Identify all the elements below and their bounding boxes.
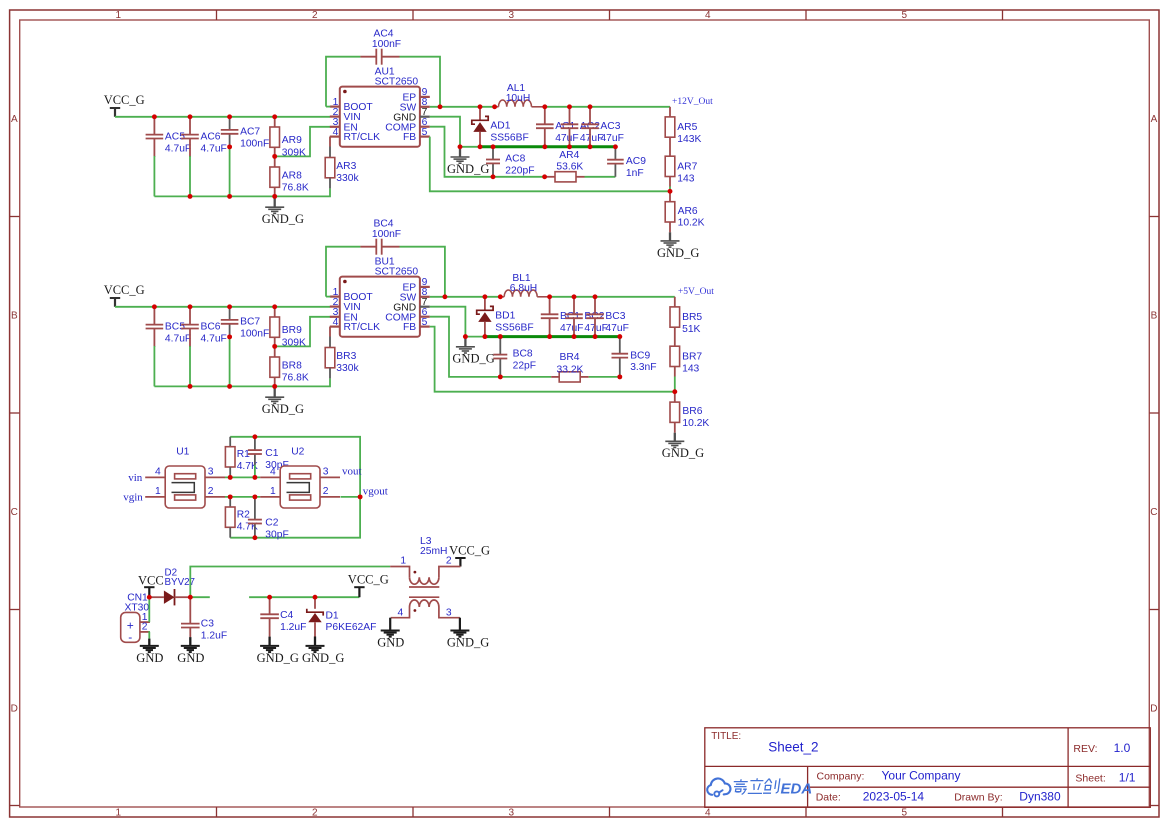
svg-text:vout: vout	[342, 466, 362, 478]
svg-text:3.3nF: 3.3nF	[630, 362, 656, 373]
svg-text:Your Company: Your Company	[882, 768, 961, 782]
svg-text:47uF: 47uF	[560, 323, 583, 334]
svg-text:GND_G: GND_G	[447, 635, 489, 649]
svg-text:D: D	[11, 703, 18, 714]
svg-text:BC7: BC7	[240, 317, 260, 328]
svg-text:2: 2	[446, 556, 452, 567]
svg-text:+12V_Out: +12V_Out	[672, 97, 713, 107]
svg-text:AC6: AC6	[201, 131, 221, 142]
svg-text:47uF: 47uF	[555, 133, 578, 144]
svg-text:100nF: 100nF	[240, 329, 269, 340]
svg-text:220pF: 220pF	[505, 165, 534, 176]
svg-text:3: 3	[508, 10, 514, 21]
svg-text:B: B	[1151, 310, 1158, 321]
svg-text:10.2K: 10.2K	[682, 418, 709, 429]
svg-text:4: 4	[155, 467, 161, 478]
svg-text:EDA: EDA	[781, 781, 813, 798]
svg-text:-: -	[128, 630, 132, 644]
svg-text:2: 2	[312, 10, 318, 21]
svg-text:BC1: BC1	[560, 311, 580, 322]
svg-text:GND: GND	[177, 651, 204, 665]
svg-text:GND_G: GND_G	[257, 651, 299, 665]
svg-text:100nF: 100nF	[372, 39, 401, 50]
svg-text:4: 4	[705, 807, 711, 818]
svg-text:GND_G: GND_G	[302, 651, 344, 665]
svg-text:A: A	[1151, 114, 1158, 125]
svg-text:AR9: AR9	[282, 135, 302, 146]
svg-text:GND_G: GND_G	[452, 352, 494, 366]
svg-text:53.6K: 53.6K	[556, 161, 583, 172]
svg-text:GND_G: GND_G	[662, 446, 704, 460]
svg-text:5: 5	[422, 127, 428, 138]
svg-text:4.7uF: 4.7uF	[165, 143, 191, 154]
svg-text:BR5: BR5	[682, 312, 702, 323]
svg-text:1.2uF: 1.2uF	[201, 630, 227, 641]
svg-text:100nF: 100nF	[372, 229, 401, 240]
svg-text:47uF: 47uF	[600, 133, 623, 144]
svg-text:VCC_G: VCC_G	[449, 543, 490, 557]
svg-text:FB: FB	[403, 322, 416, 333]
svg-text:6.8uH: 6.8uH	[510, 283, 537, 294]
svg-text:2: 2	[312, 807, 318, 818]
svg-text:AD1: AD1	[490, 121, 510, 132]
svg-text:AR5: AR5	[677, 122, 697, 133]
svg-text:BC5: BC5	[165, 321, 185, 332]
svg-text:1: 1	[115, 807, 121, 818]
svg-text:10.2K: 10.2K	[678, 218, 705, 229]
svg-text:AR8: AR8	[282, 171, 302, 182]
svg-text:AR6: AR6	[678, 206, 698, 217]
svg-text:B: B	[11, 310, 18, 321]
svg-text:VCC_G: VCC_G	[348, 573, 389, 587]
svg-text:AC3: AC3	[600, 121, 620, 132]
svg-text:Sheet:: Sheet:	[1075, 772, 1105, 784]
svg-text:4.7uF: 4.7uF	[201, 333, 227, 344]
svg-text:SCT2650: SCT2650	[375, 76, 419, 87]
svg-text:VCC_G: VCC_G	[104, 93, 145, 107]
svg-text:GND_G: GND_G	[262, 212, 304, 226]
svg-text:5: 5	[422, 317, 428, 328]
svg-text:330k: 330k	[336, 363, 359, 374]
svg-text:BC9: BC9	[630, 350, 650, 361]
svg-text:FB: FB	[403, 132, 416, 143]
svg-text:AC8: AC8	[505, 153, 525, 164]
svg-text:3: 3	[208, 467, 214, 478]
svg-text:1nF: 1nF	[626, 168, 644, 179]
svg-text:4: 4	[398, 608, 404, 619]
svg-text:BR3: BR3	[336, 351, 356, 362]
svg-text:Company:: Company:	[817, 770, 865, 782]
svg-text:BC3: BC3	[605, 311, 625, 322]
svg-text:2: 2	[323, 486, 329, 497]
svg-text:22pF: 22pF	[513, 361, 536, 372]
svg-text:4: 4	[705, 10, 711, 21]
svg-text:1: 1	[400, 556, 406, 567]
svg-text:30pF: 30pF	[265, 529, 288, 540]
svg-text:vin: vin	[128, 472, 143, 484]
svg-text:33.2K: 33.2K	[557, 364, 584, 375]
svg-text:SS56BF: SS56BF	[490, 132, 528, 143]
svg-text:Dyn380: Dyn380	[1019, 790, 1061, 804]
svg-text:C1: C1	[265, 448, 278, 459]
svg-text:U2: U2	[291, 446, 304, 457]
svg-text:BR4: BR4	[560, 352, 580, 363]
svg-text:5: 5	[901, 10, 907, 21]
svg-text:BC8: BC8	[513, 349, 533, 360]
svg-text:C3: C3	[201, 619, 214, 630]
svg-text:AC1: AC1	[555, 121, 575, 132]
svg-text:2023-05-14: 2023-05-14	[863, 790, 925, 804]
svg-text:4: 4	[333, 127, 339, 138]
svg-text:AC4: AC4	[373, 28, 393, 39]
svg-text:1.2uF: 1.2uF	[280, 622, 306, 633]
svg-text:C2: C2	[265, 518, 278, 529]
svg-text:4.7uF: 4.7uF	[201, 143, 227, 154]
svg-text:BR7: BR7	[682, 351, 702, 362]
svg-text:BC6: BC6	[201, 321, 221, 332]
svg-text:1.0: 1.0	[1114, 741, 1131, 755]
svg-text:100nF: 100nF	[240, 139, 269, 150]
svg-text:330k: 330k	[336, 173, 359, 184]
svg-text:GND: GND	[377, 635, 404, 649]
svg-text:1: 1	[155, 486, 161, 497]
svg-text:47uF: 47uF	[584, 323, 607, 334]
svg-text:4: 4	[333, 317, 339, 328]
svg-text:BL1: BL1	[512, 273, 531, 284]
svg-text:2: 2	[208, 486, 214, 497]
svg-text:25mH: 25mH	[420, 546, 447, 557]
svg-text:AC5: AC5	[165, 131, 185, 142]
svg-text:143: 143	[677, 173, 694, 184]
svg-text:1: 1	[115, 10, 121, 21]
svg-text:BR9: BR9	[282, 325, 302, 336]
svg-text:BC4: BC4	[373, 218, 393, 229]
svg-text:AR4: AR4	[559, 150, 579, 161]
svg-text:3: 3	[446, 608, 452, 619]
svg-text:RT/CLK: RT/CLK	[344, 322, 381, 333]
svg-text:4: 4	[270, 467, 276, 478]
svg-text:1/1: 1/1	[1119, 770, 1136, 784]
svg-text:TITLE:: TITLE:	[711, 731, 741, 742]
svg-text:vgout: vgout	[363, 486, 388, 498]
svg-text:C: C	[1150, 507, 1157, 518]
svg-text:2: 2	[142, 622, 148, 633]
svg-text:AC9: AC9	[626, 156, 646, 167]
svg-text:10uH: 10uH	[506, 93, 531, 104]
svg-text:1: 1	[270, 486, 276, 497]
svg-text:143: 143	[682, 363, 699, 374]
svg-text:AR3: AR3	[336, 161, 356, 172]
svg-text:3: 3	[508, 807, 514, 818]
svg-text:REV:: REV:	[1073, 743, 1097, 755]
svg-text:U1: U1	[176, 446, 189, 457]
svg-text:D1: D1	[326, 610, 339, 621]
svg-text:VCC_G: VCC_G	[104, 283, 145, 297]
svg-text:D: D	[1150, 703, 1157, 714]
svg-text:GND_G: GND_G	[262, 402, 304, 416]
svg-text:C: C	[11, 507, 18, 518]
svg-text:Date:: Date:	[816, 792, 841, 804]
svg-text:AL1: AL1	[507, 83, 526, 94]
svg-text:BR6: BR6	[682, 406, 702, 417]
svg-text:+5V_Out: +5V_Out	[678, 287, 714, 297]
svg-text:C4: C4	[280, 610, 293, 621]
svg-text:RT/CLK: RT/CLK	[344, 132, 381, 143]
svg-text:GND_G: GND_G	[447, 162, 489, 176]
svg-text:SCT2650: SCT2650	[375, 266, 419, 277]
svg-text:A: A	[11, 114, 18, 125]
svg-text:P6KE62AF: P6KE62AF	[326, 622, 377, 633]
svg-text:GND: GND	[136, 651, 163, 665]
svg-text:Sheet_2: Sheet_2	[768, 739, 818, 754]
svg-text:4.7uF: 4.7uF	[165, 333, 191, 344]
svg-text:76.8K: 76.8K	[282, 373, 309, 384]
svg-text:3: 3	[323, 467, 329, 478]
svg-text:5: 5	[901, 807, 907, 818]
svg-text:Drawn By:: Drawn By:	[954, 792, 1002, 804]
svg-text:SS56BF: SS56BF	[495, 322, 533, 333]
svg-text:vgin: vgin	[123, 492, 143, 504]
svg-text:VCC: VCC	[138, 574, 164, 588]
svg-text:51K: 51K	[682, 324, 700, 335]
svg-text:AR7: AR7	[677, 161, 697, 172]
svg-text:143K: 143K	[677, 134, 701, 145]
svg-text:BR8: BR8	[282, 361, 302, 372]
svg-text:47uF: 47uF	[605, 323, 628, 334]
svg-text:AC7: AC7	[240, 127, 260, 138]
svg-text:76.8K: 76.8K	[282, 183, 309, 194]
svg-text:GND_G: GND_G	[657, 246, 699, 260]
svg-text:BD1: BD1	[495, 311, 515, 322]
